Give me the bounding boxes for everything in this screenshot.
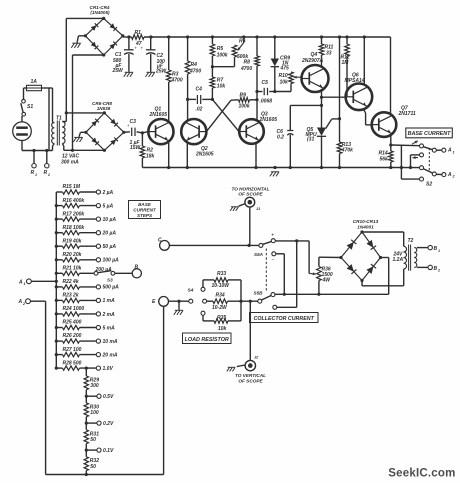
svg-text:OF SCOPE: OF SCOPE bbox=[238, 192, 263, 197]
svg-text:50: 50 bbox=[90, 437, 96, 443]
svg-text:5 µA: 5 µA bbox=[103, 203, 114, 209]
svg-text:R34: R34 bbox=[216, 293, 225, 299]
svg-text:2 mA: 2 mA bbox=[102, 312, 116, 318]
svg-text:100 µA: 100 µA bbox=[103, 258, 120, 264]
svg-text:56k: 56k bbox=[380, 157, 389, 163]
svg-text:R18 100k: R18 100k bbox=[63, 225, 85, 231]
svg-text:R: R bbox=[44, 170, 48, 176]
svg-text:10k: 10k bbox=[280, 79, 289, 85]
svg-text:TO HORIZONTAL: TO HORIZONTAL bbox=[231, 186, 269, 191]
svg-text:10-10W: 10-10W bbox=[212, 283, 231, 289]
svg-text:TO VERTICAL: TO VERTICAL bbox=[235, 373, 266, 378]
svg-text:S5B: S5B bbox=[254, 290, 264, 295]
svg-text:300: 300 bbox=[90, 383, 99, 389]
svg-text:2N2907A: 2N2907A bbox=[301, 58, 324, 64]
svg-text:10-2W: 10-2W bbox=[212, 305, 228, 311]
svg-text:10k: 10k bbox=[218, 326, 227, 332]
svg-text:2 µA: 2 µA bbox=[102, 190, 114, 196]
svg-text:T1: T1 bbox=[56, 116, 62, 122]
svg-text:S3: S3 bbox=[107, 278, 113, 283]
svg-text:OF SCOPE: OF SCOPE bbox=[238, 378, 263, 383]
svg-text:J1: J1 bbox=[256, 207, 260, 211]
svg-text:R23 2k: R23 2k bbox=[63, 293, 79, 299]
svg-text:100k: 100k bbox=[217, 53, 228, 59]
svg-text:R17 200k: R17 200k bbox=[63, 211, 85, 217]
svg-text:C3: C3 bbox=[130, 119, 137, 125]
svg-text:C4: C4 bbox=[196, 87, 203, 93]
svg-text:R28 500: R28 500 bbox=[63, 360, 82, 366]
svg-text:A: A bbox=[18, 279, 23, 285]
svg-text:S1: S1 bbox=[27, 104, 33, 110]
svg-text:2N1605: 2N1605 bbox=[259, 117, 278, 123]
svg-text:(31: (31 bbox=[307, 137, 314, 143]
svg-text:15W: 15W bbox=[130, 145, 142, 151]
svg-text:4700: 4700 bbox=[189, 69, 201, 75]
svg-text:C5: C5 bbox=[262, 80, 269, 86]
svg-text:R19 40k: R19 40k bbox=[63, 238, 82, 244]
svg-text:R10: R10 bbox=[279, 73, 288, 79]
svg-text:500 µA: 500 µA bbox=[103, 285, 120, 291]
svg-text:R26 200: R26 200 bbox=[63, 333, 82, 339]
svg-text:2: 2 bbox=[452, 175, 455, 179]
svg-text:475: 475 bbox=[280, 65, 290, 71]
svg-text:25W: 25W bbox=[155, 69, 168, 75]
svg-text:T2: T2 bbox=[408, 238, 414, 244]
svg-text:R5: R5 bbox=[217, 46, 224, 52]
svg-text:CURRENT: CURRENT bbox=[133, 208, 157, 213]
svg-text:R20 20k: R20 20k bbox=[63, 252, 82, 258]
svg-text:470k: 470k bbox=[341, 148, 353, 154]
svg-text:CR10-CR13: CR10-CR13 bbox=[353, 219, 379, 224]
svg-text:SeekIC.com: SeekIC.com bbox=[388, 468, 455, 480]
svg-text:0.2: 0.2 bbox=[277, 135, 284, 141]
svg-text:18k: 18k bbox=[146, 154, 155, 160]
svg-text:R9: R9 bbox=[240, 93, 247, 99]
svg-text:R: R bbox=[31, 170, 35, 176]
svg-text:A: A bbox=[447, 172, 452, 178]
svg-text:50 µA: 50 µA bbox=[103, 244, 117, 250]
svg-text:R6: R6 bbox=[239, 39, 246, 45]
svg-text:100k: 100k bbox=[239, 104, 250, 110]
svg-text:C: C bbox=[158, 238, 162, 244]
svg-text:S5A: S5A bbox=[254, 252, 263, 257]
svg-text:25W: 25W bbox=[112, 68, 125, 74]
svg-text:5 mA: 5 mA bbox=[103, 325, 116, 331]
svg-text:R15 1M: R15 1M bbox=[63, 184, 81, 190]
svg-text:1N4001: 1N4001 bbox=[357, 225, 374, 230]
svg-text:.02: .02 bbox=[196, 107, 203, 113]
svg-text:B: B bbox=[434, 246, 438, 252]
svg-text:R1: R1 bbox=[135, 30, 142, 36]
svg-text:50: 50 bbox=[90, 464, 96, 470]
svg-text:B: B bbox=[135, 265, 139, 271]
svg-text:+: + bbox=[141, 45, 144, 50]
svg-text:1: 1 bbox=[24, 282, 26, 286]
svg-text:1: 1 bbox=[35, 173, 37, 177]
svg-text:1.2A: 1.2A bbox=[393, 257, 404, 263]
svg-text:LOAD RESISTOR: LOAD RESISTOR bbox=[185, 337, 229, 343]
svg-text:R22 4k: R22 4k bbox=[63, 279, 79, 285]
svg-text:33: 33 bbox=[326, 51, 332, 57]
svg-text:R21 10k: R21 10k bbox=[63, 266, 82, 272]
svg-text:R24 1000: R24 1000 bbox=[63, 306, 85, 312]
svg-text:+: + bbox=[134, 45, 137, 50]
svg-text:−: − bbox=[272, 257, 275, 263]
svg-text:4W: 4W bbox=[322, 278, 332, 284]
svg-text:4700: 4700 bbox=[171, 78, 183, 84]
svg-text:S2: S2 bbox=[426, 182, 432, 188]
svg-text:(1N4005): (1N4005) bbox=[90, 10, 110, 15]
svg-text:2: 2 bbox=[22, 302, 25, 306]
svg-text:10k: 10k bbox=[217, 84, 226, 90]
svg-text:4700: 4700 bbox=[240, 66, 252, 72]
svg-text:10 µA: 10 µA bbox=[103, 217, 117, 223]
svg-text:10 mA: 10 mA bbox=[103, 339, 118, 345]
svg-text:A: A bbox=[447, 148, 452, 154]
svg-text:0.1V: 0.1V bbox=[103, 448, 114, 454]
svg-text:1 mA: 1 mA bbox=[103, 298, 116, 304]
svg-text:1: 1 bbox=[453, 150, 455, 154]
svg-text:R8: R8 bbox=[244, 60, 251, 66]
svg-text:BASE: BASE bbox=[138, 202, 152, 207]
svg-text:1A: 1A bbox=[31, 79, 38, 85]
svg-text:BASE CURRENT: BASE CURRENT bbox=[408, 131, 452, 137]
svg-text:COLLECTOR CURRENT: COLLECTOR CURRENT bbox=[254, 316, 315, 322]
svg-text:200 µA: 200 µA bbox=[95, 267, 113, 273]
svg-text:1: 1 bbox=[438, 249, 440, 253]
svg-text:0.5V: 0.5V bbox=[103, 394, 114, 400]
svg-text:2N1711: 2N1711 bbox=[398, 111, 416, 117]
svg-text:2: 2 bbox=[47, 173, 50, 177]
svg-text:20 mA: 20 mA bbox=[102, 352, 118, 358]
svg-text:.0068: .0068 bbox=[260, 99, 273, 105]
svg-text:STEPS: STEPS bbox=[137, 213, 153, 218]
svg-text:+: + bbox=[271, 232, 274, 238]
svg-text:20 µA: 20 µA bbox=[102, 231, 117, 237]
svg-text:300 mA: 300 mA bbox=[61, 159, 79, 165]
svg-text:2N1605: 2N1605 bbox=[195, 151, 214, 157]
svg-text:2N1605: 2N1605 bbox=[149, 112, 168, 118]
svg-text:R35: R35 bbox=[217, 315, 226, 321]
svg-text:2: 2 bbox=[437, 269, 440, 273]
svg-text:1N538: 1N538 bbox=[97, 106, 111, 111]
svg-text:1.0V: 1.0V bbox=[103, 366, 114, 372]
svg-text:1M: 1M bbox=[342, 60, 350, 66]
svg-text:A: A bbox=[18, 299, 23, 305]
svg-text:0.2V: 0.2V bbox=[103, 421, 114, 427]
svg-text:S4: S4 bbox=[188, 288, 194, 294]
svg-text:R16 400k: R16 400k bbox=[63, 198, 85, 204]
svg-text:100: 100 bbox=[90, 410, 99, 416]
svg-text:R27 100: R27 100 bbox=[63, 347, 82, 353]
svg-text:R4: R4 bbox=[191, 62, 198, 68]
svg-text:MPSA14: MPSA14 bbox=[345, 78, 365, 84]
svg-text:R33: R33 bbox=[217, 271, 226, 277]
svg-text:R25 400: R25 400 bbox=[63, 320, 82, 326]
svg-text:B: B bbox=[434, 266, 438, 272]
